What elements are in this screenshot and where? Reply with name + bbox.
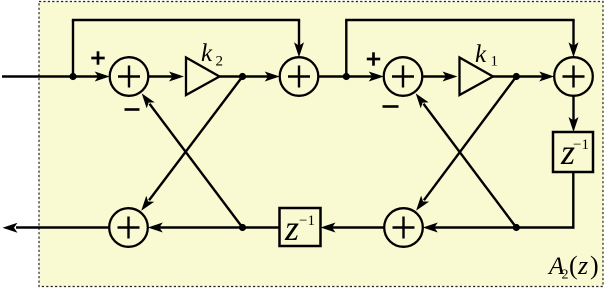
svg-text:2: 2 bbox=[216, 54, 224, 70]
svg-text:1: 1 bbox=[491, 54, 499, 70]
svg-text:k: k bbox=[201, 40, 213, 67]
svg-text:−1: −1 bbox=[299, 213, 315, 229]
svg-text:2: 2 bbox=[562, 268, 569, 283]
svg-text:z: z bbox=[577, 251, 588, 280]
svg-text:): ) bbox=[590, 251, 599, 280]
svg-text:−1: −1 bbox=[573, 137, 589, 153]
svg-text:k: k bbox=[475, 41, 487, 68]
svg-text:z: z bbox=[284, 208, 299, 248]
svg-text:(: ( bbox=[569, 251, 578, 280]
